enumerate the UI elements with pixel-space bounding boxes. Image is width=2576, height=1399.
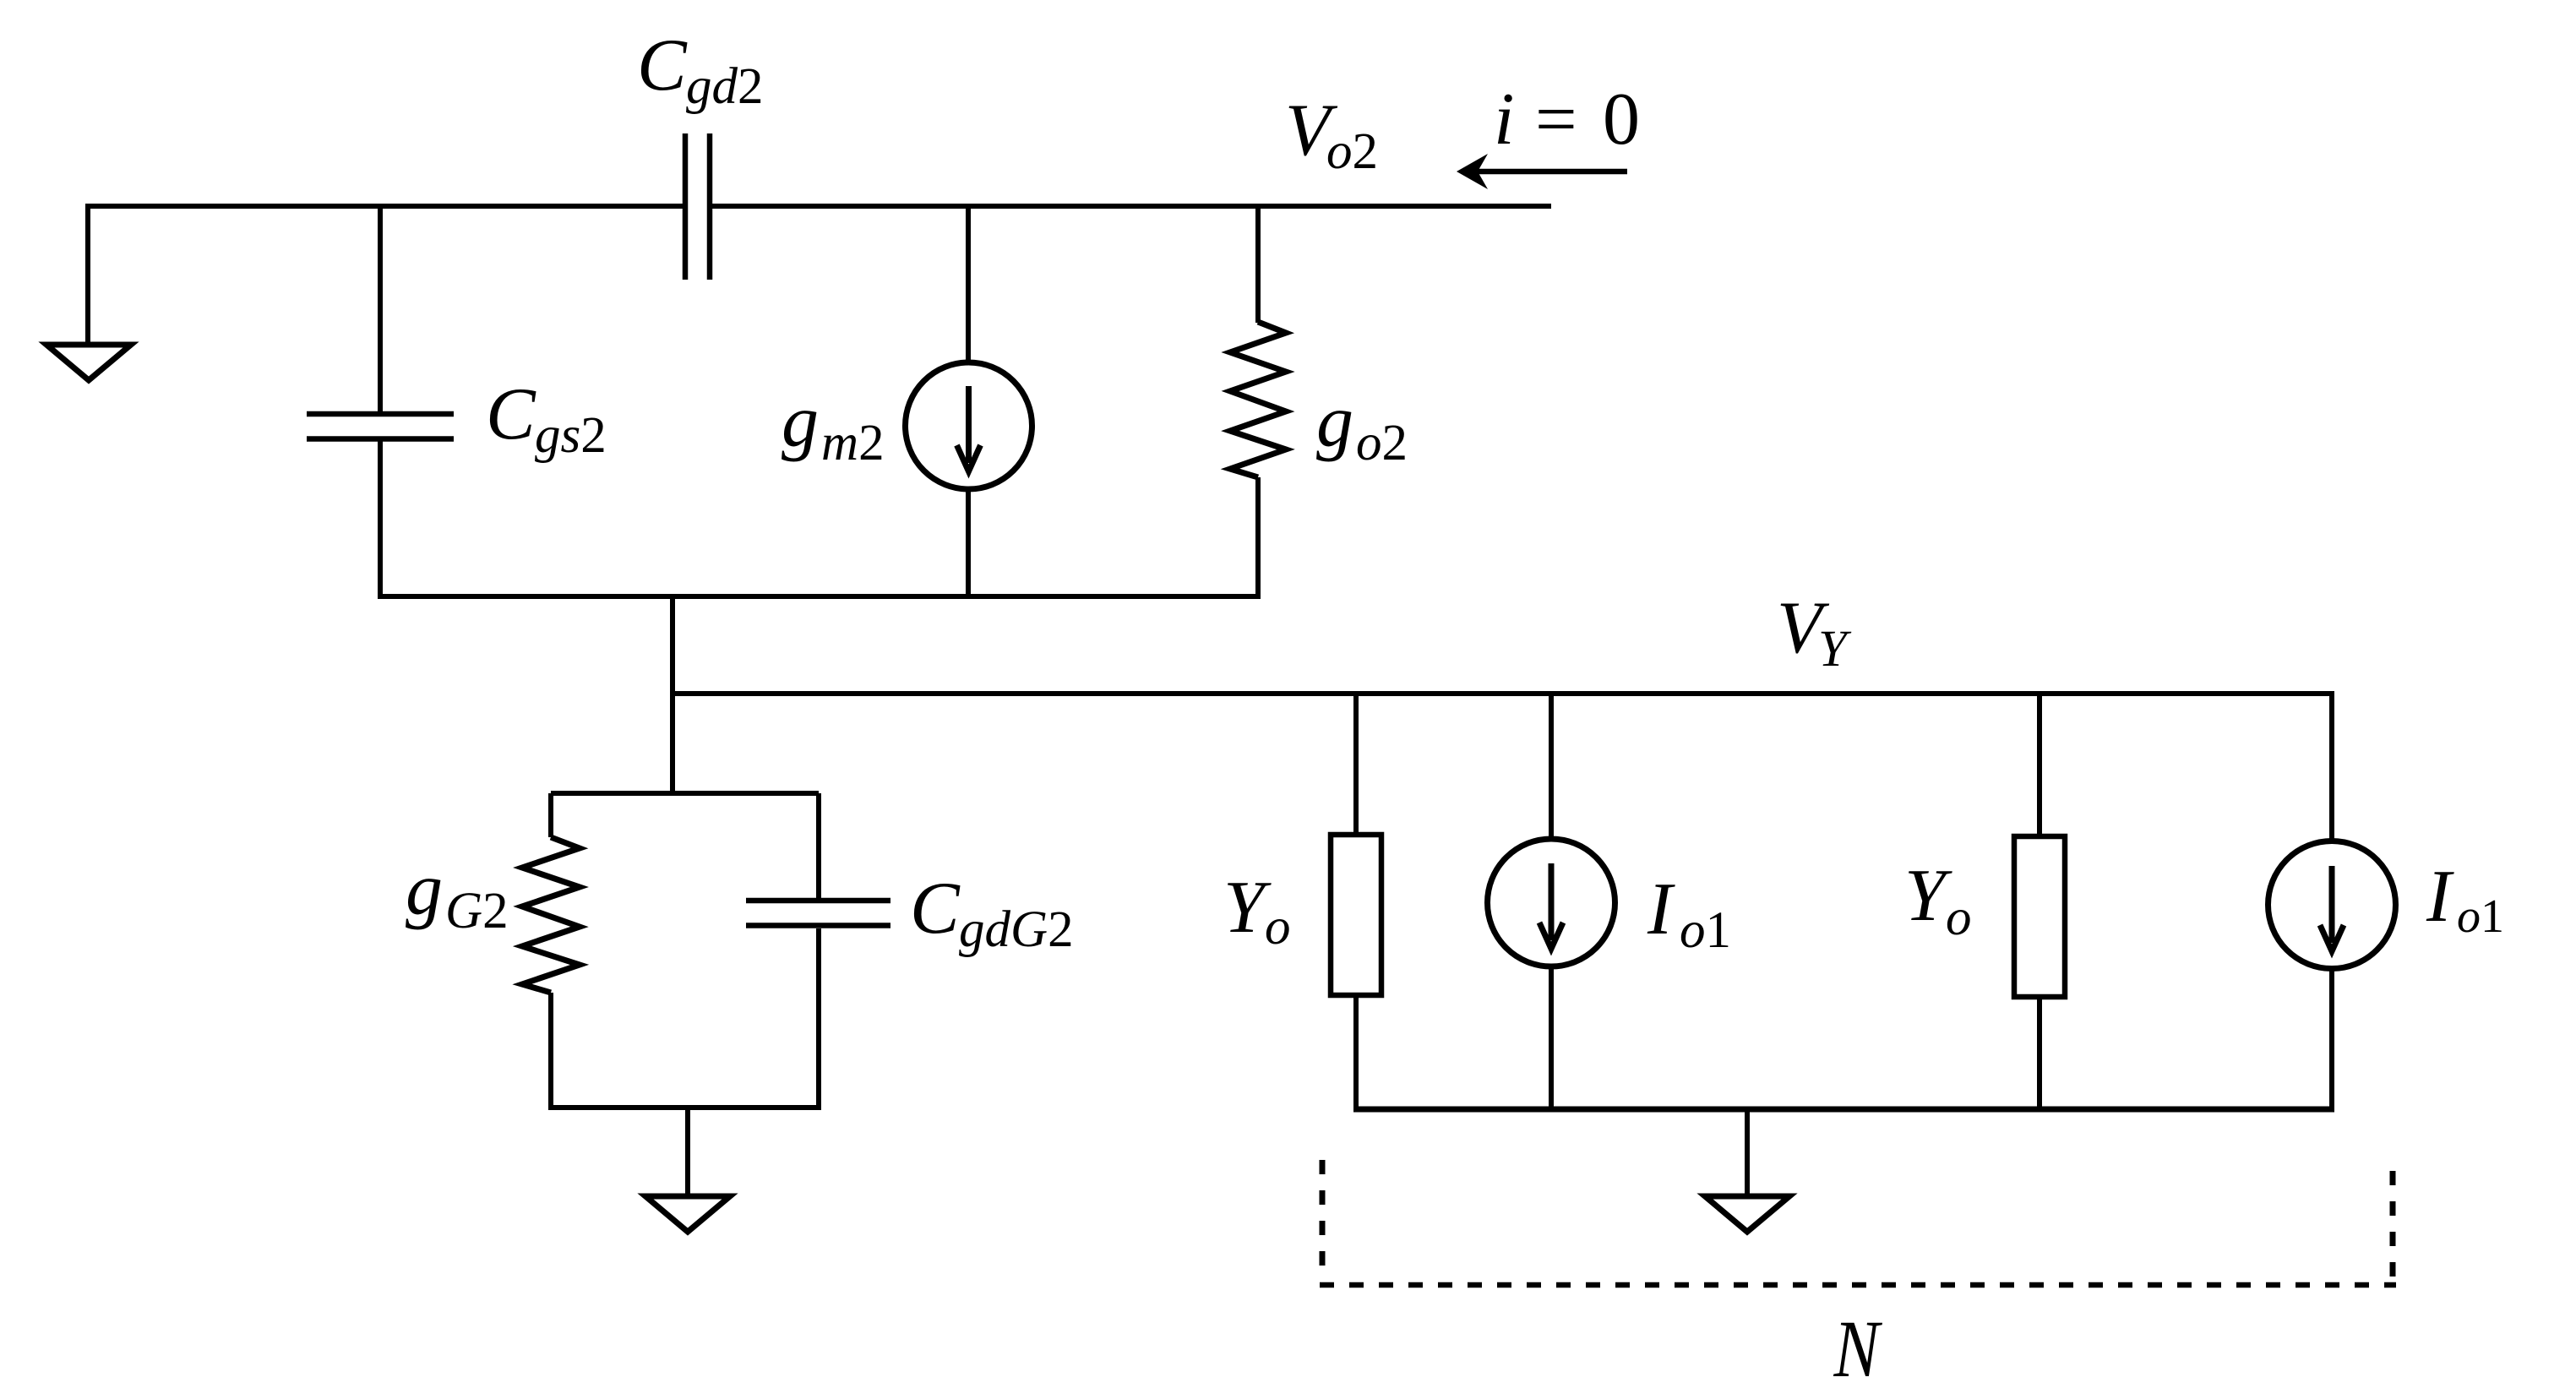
svg-text:g: g (1316, 381, 1353, 463)
svg-text:N: N (1833, 1305, 1883, 1395)
svg-text:m2: m2 (821, 415, 885, 471)
svg-text:gd2: gd2 (686, 58, 764, 115)
svg-text:C: C (637, 24, 688, 106)
svg-text:o2: o2 (1326, 123, 1378, 180)
svg-text:C: C (910, 868, 961, 950)
svg-text:gdG2: gdG2 (959, 901, 1074, 958)
svg-text:g: g (406, 849, 443, 931)
svg-text:o: o (1265, 899, 1291, 955)
svg-text:o1: o1 (2457, 890, 2504, 943)
svg-text:C: C (486, 373, 536, 455)
svg-text:I: I (1647, 868, 1675, 950)
svg-text:gs2: gs2 (535, 407, 607, 464)
svg-text:o: o (1946, 890, 1972, 946)
svg-text:I: I (2426, 856, 2454, 938)
svg-text:i: i (1494, 79, 1514, 161)
svg-text:g: g (782, 381, 819, 463)
svg-text:0: 0 (1603, 79, 1640, 161)
svg-text:G2: G2 (445, 883, 509, 939)
svg-text:=: = (1535, 79, 1577, 161)
svg-text:o2: o2 (1356, 415, 1408, 471)
svg-text:o1: o1 (1680, 902, 1731, 959)
